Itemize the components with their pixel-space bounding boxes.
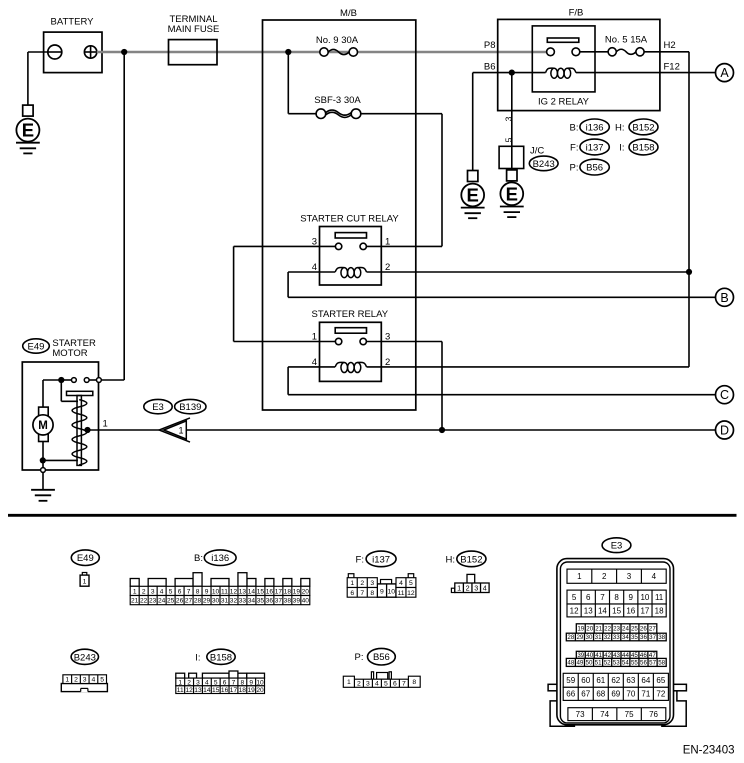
svg-text:34: 34 bbox=[622, 634, 629, 641]
svg-text:P:: P: bbox=[570, 163, 579, 174]
svg-text:12: 12 bbox=[230, 588, 238, 595]
svg-text:29: 29 bbox=[203, 598, 211, 605]
svg-text:10: 10 bbox=[212, 588, 220, 595]
svg-text:8: 8 bbox=[370, 590, 374, 597]
wire main battery power (gray) bbox=[97, 51, 547, 54]
node battery junction bbox=[121, 49, 127, 55]
svg-text:30: 30 bbox=[212, 598, 220, 605]
node B6 junction bbox=[509, 70, 515, 76]
svg-text:i136: i136 bbox=[586, 122, 604, 133]
svg-text:70: 70 bbox=[626, 690, 635, 699]
wire switch to solenoid bbox=[60, 380, 62, 401]
svg-text:M/B: M/B bbox=[340, 8, 357, 19]
svg-text:76: 76 bbox=[649, 710, 658, 719]
svg-text:17: 17 bbox=[275, 588, 283, 595]
svg-text:1: 1 bbox=[457, 583, 461, 592]
node D junction bbox=[439, 427, 445, 433]
svg-text:F:: F: bbox=[356, 554, 364, 565]
svg-text:7: 7 bbox=[187, 588, 191, 595]
switch starter contacts bbox=[58, 377, 101, 383]
ground E (B6) bbox=[461, 171, 485, 219]
svg-text:7: 7 bbox=[600, 593, 605, 602]
wire cut relay pin 2 to H2 branch bbox=[367, 271, 690, 273]
junction connector J/C B243 bbox=[499, 146, 558, 171]
svg-text:13: 13 bbox=[239, 588, 247, 595]
svg-text:3: 3 bbox=[504, 116, 514, 121]
svg-text:69: 69 bbox=[611, 690, 620, 699]
svg-text:2: 2 bbox=[74, 677, 78, 684]
svg-text:3: 3 bbox=[83, 677, 87, 684]
wire starter relay pin 2 to H2 branch bbox=[367, 366, 690, 368]
svg-text:B: B bbox=[720, 291, 728, 305]
svg-text:J/C: J/C bbox=[530, 146, 544, 157]
svg-text:E49: E49 bbox=[77, 553, 94, 564]
wire SBF-3 to starter cut relay pin 1 bbox=[361, 113, 442, 115]
svg-text:SBF-3 30A: SBF-3 30A bbox=[314, 95, 361, 106]
svg-text:No. 5 15A: No. 5 15A bbox=[605, 34, 648, 45]
svg-text:15: 15 bbox=[612, 606, 621, 615]
svg-text:27: 27 bbox=[185, 598, 193, 605]
svg-text:2: 2 bbox=[142, 588, 146, 595]
svg-text:24: 24 bbox=[622, 626, 629, 633]
svg-text:STARTER CUT RELAY: STARTER CUT RELAY bbox=[300, 214, 399, 225]
svg-text:28: 28 bbox=[567, 634, 574, 641]
wire cut relay pin 1 bbox=[366, 245, 442, 247]
svg-text:2: 2 bbox=[466, 583, 470, 592]
svg-text:21: 21 bbox=[131, 598, 139, 605]
svg-text:P8: P8 bbox=[484, 40, 496, 51]
wire M/B branch down bbox=[287, 52, 289, 114]
svg-text:23: 23 bbox=[613, 626, 620, 633]
svg-text:29: 29 bbox=[576, 634, 583, 641]
separator line bbox=[8, 514, 737, 517]
svg-text:IG 2 RELAY: IG 2 RELAY bbox=[538, 97, 590, 108]
svg-text:5: 5 bbox=[504, 137, 514, 142]
svg-text:21: 21 bbox=[595, 626, 602, 633]
svg-text:4: 4 bbox=[652, 572, 657, 581]
wire motor to ground bbox=[42, 442, 44, 468]
relay IG2 (IG 2 RELAY) bbox=[532, 26, 608, 108]
svg-text:I:: I: bbox=[619, 143, 624, 154]
connector B56 pinout bbox=[343, 648, 420, 687]
svg-text:i137: i137 bbox=[372, 554, 390, 565]
svg-text:B56: B56 bbox=[373, 652, 390, 663]
svg-text:20: 20 bbox=[586, 626, 593, 633]
svg-text:23: 23 bbox=[149, 598, 157, 605]
svg-text:5: 5 bbox=[409, 580, 413, 587]
svg-text:D: D bbox=[720, 424, 729, 438]
svg-text:2: 2 bbox=[357, 681, 361, 688]
svg-text:H:: H: bbox=[615, 122, 625, 133]
svg-text:1: 1 bbox=[347, 679, 351, 686]
svg-text:26: 26 bbox=[640, 626, 647, 633]
svg-text:1: 1 bbox=[178, 425, 183, 435]
svg-text:36: 36 bbox=[640, 634, 647, 641]
svg-text:7: 7 bbox=[402, 681, 406, 688]
svg-text:B158: B158 bbox=[210, 652, 232, 663]
svg-text:i137: i137 bbox=[586, 143, 604, 154]
connector i136 pinout bbox=[130, 550, 310, 605]
wire cut relay pin 3 to starter relay pin 1 bbox=[234, 245, 336, 247]
svg-text:64: 64 bbox=[641, 676, 650, 685]
svg-text:17: 17 bbox=[640, 606, 649, 615]
svg-text:66: 66 bbox=[566, 690, 575, 699]
svg-text:6: 6 bbox=[178, 588, 182, 595]
fuse SBF-3 30A bbox=[288, 95, 361, 118]
svg-text:15: 15 bbox=[257, 588, 265, 595]
wire to motor M bbox=[43, 379, 61, 381]
svg-text:31: 31 bbox=[595, 634, 602, 641]
svg-text:6: 6 bbox=[586, 593, 591, 602]
svg-text:10: 10 bbox=[388, 588, 396, 595]
svg-text:8: 8 bbox=[196, 588, 200, 595]
svg-text:58: 58 bbox=[658, 660, 665, 667]
svg-text:7: 7 bbox=[360, 590, 364, 597]
svg-text:F/B: F/B bbox=[569, 8, 584, 19]
svg-text:STARTER RELAY: STARTER RELAY bbox=[312, 309, 389, 320]
svg-text:9: 9 bbox=[205, 588, 209, 595]
svg-text:F:: F: bbox=[570, 143, 578, 154]
svg-text:52: 52 bbox=[604, 660, 611, 667]
svg-text:48: 48 bbox=[567, 660, 574, 667]
svg-text:B56: B56 bbox=[586, 163, 603, 174]
svg-text:1: 1 bbox=[65, 677, 69, 684]
svg-text:P:: P: bbox=[355, 652, 364, 663]
svg-text:16: 16 bbox=[266, 588, 274, 595]
svg-text:17: 17 bbox=[230, 687, 238, 694]
svg-text:26: 26 bbox=[176, 598, 184, 605]
svg-text:18: 18 bbox=[284, 588, 292, 595]
ground (starter motor) bbox=[31, 490, 55, 501]
wire cut relay pin 4 to node B bbox=[288, 271, 335, 273]
svg-text:36: 36 bbox=[266, 598, 274, 605]
svg-text:15: 15 bbox=[212, 687, 220, 694]
connector B152 pinout bbox=[446, 551, 490, 592]
svg-text:31: 31 bbox=[221, 598, 229, 605]
svg-text:24: 24 bbox=[158, 598, 166, 605]
wire starter relay pin 4 to node C bbox=[288, 366, 335, 368]
connector E49 pinout bbox=[71, 550, 99, 586]
svg-text:50: 50 bbox=[586, 660, 593, 667]
svg-text:1: 1 bbox=[577, 572, 582, 581]
battery B1 bbox=[28, 17, 102, 73]
svg-text:32: 32 bbox=[230, 598, 238, 605]
svg-text:E: E bbox=[506, 183, 518, 204]
svg-text:63: 63 bbox=[626, 676, 635, 685]
svg-text:54: 54 bbox=[622, 660, 629, 667]
svg-text:3: 3 bbox=[627, 572, 632, 581]
wire battery to starter motor bbox=[123, 52, 125, 380]
svg-text:49: 49 bbox=[576, 660, 583, 667]
svg-text:62: 62 bbox=[611, 676, 620, 685]
svg-text:57: 57 bbox=[649, 660, 656, 667]
svg-text:13: 13 bbox=[194, 687, 202, 694]
svg-text:32: 32 bbox=[604, 634, 611, 641]
svg-text:E49: E49 bbox=[28, 342, 45, 353]
svg-text:75: 75 bbox=[625, 710, 634, 719]
box F/B (fuse box) bbox=[498, 8, 660, 111]
svg-text:59: 59 bbox=[566, 676, 575, 685]
svg-text:11: 11 bbox=[397, 590, 404, 597]
wire starter relay pin 3 to node D bbox=[366, 341, 442, 343]
svg-text:B243: B243 bbox=[74, 652, 96, 663]
svg-text:E: E bbox=[467, 185, 479, 206]
svg-text:B:: B: bbox=[194, 553, 203, 564]
node C bbox=[716, 386, 734, 404]
svg-text:F12: F12 bbox=[664, 62, 680, 73]
svg-text:22: 22 bbox=[140, 598, 148, 605]
solenoid coil bbox=[72, 400, 87, 465]
fuse No.9 30A bbox=[316, 35, 359, 56]
svg-text:39: 39 bbox=[293, 598, 301, 605]
svg-text:5: 5 bbox=[384, 681, 388, 688]
svg-text:37: 37 bbox=[649, 634, 656, 641]
svg-text:61: 61 bbox=[596, 676, 605, 685]
svg-text:14: 14 bbox=[248, 588, 256, 595]
svg-text:20: 20 bbox=[256, 687, 264, 694]
ground E (battery) bbox=[16, 105, 40, 153]
node solenoid tap pin 1 bbox=[84, 427, 90, 433]
svg-text:MAIN FUSE: MAIN FUSE bbox=[168, 24, 220, 35]
svg-text:30: 30 bbox=[586, 634, 593, 641]
pin 3 (rotated) bbox=[504, 116, 514, 121]
svg-text:51: 51 bbox=[595, 660, 602, 667]
connector B139 oval bbox=[175, 399, 206, 413]
svg-text:6: 6 bbox=[350, 590, 354, 597]
wire starter solenoid to node D bbox=[88, 429, 160, 431]
motor M bbox=[33, 407, 53, 441]
svg-text:9: 9 bbox=[380, 588, 384, 595]
svg-text:H:: H: bbox=[446, 554, 456, 565]
svg-text:28: 28 bbox=[194, 598, 202, 605]
node D bbox=[716, 421, 734, 439]
ground E (J/C) bbox=[500, 170, 524, 217]
connector B158 pinout bbox=[176, 649, 265, 694]
svg-text:14: 14 bbox=[203, 687, 211, 694]
svg-text:E3: E3 bbox=[611, 541, 623, 552]
svg-text:25: 25 bbox=[167, 598, 175, 605]
fuse terminal main fuse bbox=[168, 14, 220, 65]
svg-text:5: 5 bbox=[169, 588, 173, 595]
svg-text:4: 4 bbox=[160, 588, 164, 595]
wire battery negative bbox=[27, 52, 29, 105]
svg-text:4: 4 bbox=[399, 580, 403, 587]
svg-text:MOTOR: MOTOR bbox=[52, 348, 87, 359]
svg-text:3: 3 bbox=[370, 580, 374, 587]
svg-text:38: 38 bbox=[658, 634, 665, 641]
fuse No.5 15A bbox=[605, 34, 648, 56]
svg-text:40: 40 bbox=[302, 598, 310, 605]
svg-text:18: 18 bbox=[655, 606, 664, 615]
svg-text:BATTERY: BATTERY bbox=[51, 17, 95, 28]
wire No.5 fuse via H2 down to relays bbox=[644, 51, 689, 53]
svg-text:65: 65 bbox=[656, 676, 665, 685]
svg-text:19: 19 bbox=[248, 687, 256, 694]
svg-text:12: 12 bbox=[185, 687, 193, 694]
svg-text:19: 19 bbox=[577, 626, 584, 633]
svg-text:10: 10 bbox=[640, 593, 649, 602]
relay starter cut relay bbox=[300, 214, 399, 285]
solenoid plunger bbox=[67, 391, 93, 465]
svg-text:56: 56 bbox=[640, 660, 647, 667]
svg-text:67: 67 bbox=[581, 690, 590, 699]
svg-text:34: 34 bbox=[248, 598, 256, 605]
svg-text:16: 16 bbox=[626, 606, 635, 615]
node A bbox=[716, 64, 734, 82]
node M/B branch bbox=[285, 49, 291, 55]
svg-text:1: 1 bbox=[103, 419, 108, 430]
svg-text:B6: B6 bbox=[484, 62, 496, 73]
svg-text:71: 71 bbox=[641, 690, 650, 699]
svg-text:1: 1 bbox=[350, 580, 354, 587]
svg-text:4: 4 bbox=[92, 677, 96, 684]
svg-text:2: 2 bbox=[360, 580, 364, 587]
svg-text:C: C bbox=[720, 388, 729, 402]
svg-text:12: 12 bbox=[570, 606, 579, 615]
svg-text:27: 27 bbox=[649, 626, 656, 633]
svg-text:74: 74 bbox=[600, 710, 609, 719]
node H2 branch bbox=[686, 269, 692, 275]
svg-text:12: 12 bbox=[407, 590, 415, 597]
svg-text:5: 5 bbox=[572, 593, 577, 602]
svg-text:8: 8 bbox=[412, 679, 416, 686]
svg-text:33: 33 bbox=[239, 598, 247, 605]
svg-text:16: 16 bbox=[221, 687, 229, 694]
connector E3 oval bbox=[144, 399, 172, 413]
svg-text:25: 25 bbox=[631, 626, 638, 633]
svg-text:3: 3 bbox=[474, 583, 478, 592]
svg-text:19: 19 bbox=[293, 588, 301, 595]
svg-text:B158: B158 bbox=[632, 143, 654, 154]
terminal starter ground bbox=[41, 468, 46, 473]
svg-text:38: 38 bbox=[284, 598, 292, 605]
svg-text:11: 11 bbox=[177, 687, 184, 694]
svg-text:EN-23403: EN-23403 bbox=[683, 745, 735, 757]
svg-text:9: 9 bbox=[629, 593, 634, 602]
svg-text:4: 4 bbox=[483, 583, 487, 592]
node motor ground bbox=[40, 457, 46, 463]
svg-text:No. 9 30A: No. 9 30A bbox=[316, 35, 359, 46]
svg-text:13: 13 bbox=[584, 606, 593, 615]
svg-text:11: 11 bbox=[655, 593, 664, 602]
starter motor E49 bbox=[22, 338, 98, 470]
svg-text:E: E bbox=[22, 120, 34, 141]
svg-text:33: 33 bbox=[613, 634, 620, 641]
svg-text:6: 6 bbox=[393, 681, 397, 688]
svg-text:11: 11 bbox=[221, 588, 228, 595]
svg-text:3: 3 bbox=[151, 588, 155, 595]
legend connector codes bbox=[570, 119, 658, 175]
svg-text:B:: B: bbox=[570, 122, 579, 133]
wire B6 junction to J/C bbox=[511, 73, 513, 170]
svg-text:1: 1 bbox=[312, 331, 317, 342]
box M/B (main fuse box) bbox=[263, 8, 416, 410]
connector B243 pinout bbox=[61, 649, 107, 692]
pin 5 (rotated) bbox=[504, 137, 514, 142]
svg-text:53: 53 bbox=[613, 660, 620, 667]
svg-text:20: 20 bbox=[302, 588, 310, 595]
svg-text:55: 55 bbox=[631, 660, 638, 667]
svg-text:1: 1 bbox=[133, 588, 137, 595]
svg-text:73: 73 bbox=[576, 710, 585, 719]
svg-text:22: 22 bbox=[604, 626, 611, 633]
svg-text:3: 3 bbox=[366, 681, 370, 688]
connector E3 pinout bbox=[548, 538, 686, 727]
svg-text:35: 35 bbox=[631, 634, 638, 641]
svg-text:B243: B243 bbox=[533, 159, 555, 170]
svg-text:68: 68 bbox=[596, 690, 605, 699]
svg-text:i136: i136 bbox=[211, 553, 229, 564]
svg-text:2: 2 bbox=[602, 572, 607, 581]
svg-text:B152: B152 bbox=[632, 122, 654, 133]
svg-text:H2: H2 bbox=[664, 40, 676, 51]
svg-text:5: 5 bbox=[100, 677, 104, 684]
svg-text:37: 37 bbox=[275, 598, 283, 605]
svg-text:4: 4 bbox=[375, 681, 379, 688]
relay starter relay bbox=[312, 309, 391, 381]
wire B6 / F12 line bbox=[473, 72, 546, 74]
svg-text:1: 1 bbox=[83, 579, 87, 586]
svg-text:B152: B152 bbox=[460, 554, 482, 565]
svg-text:M: M bbox=[38, 420, 48, 432]
svg-text:E3: E3 bbox=[152, 402, 164, 413]
svg-text:14: 14 bbox=[598, 606, 607, 615]
wire B6 to ground bbox=[472, 73, 474, 171]
svg-text:60: 60 bbox=[581, 676, 590, 685]
connector inline (triangle) pin 1 bbox=[159, 418, 190, 442]
svg-text:A: A bbox=[720, 66, 729, 80]
svg-text:72: 72 bbox=[656, 690, 665, 699]
svg-text:8: 8 bbox=[614, 593, 619, 602]
svg-text:B139: B139 bbox=[179, 402, 201, 413]
svg-text:I:: I: bbox=[195, 652, 200, 663]
svg-text:18: 18 bbox=[239, 687, 247, 694]
svg-text:35: 35 bbox=[257, 598, 265, 605]
node B bbox=[716, 288, 734, 306]
connector i137 pinout bbox=[347, 551, 416, 597]
